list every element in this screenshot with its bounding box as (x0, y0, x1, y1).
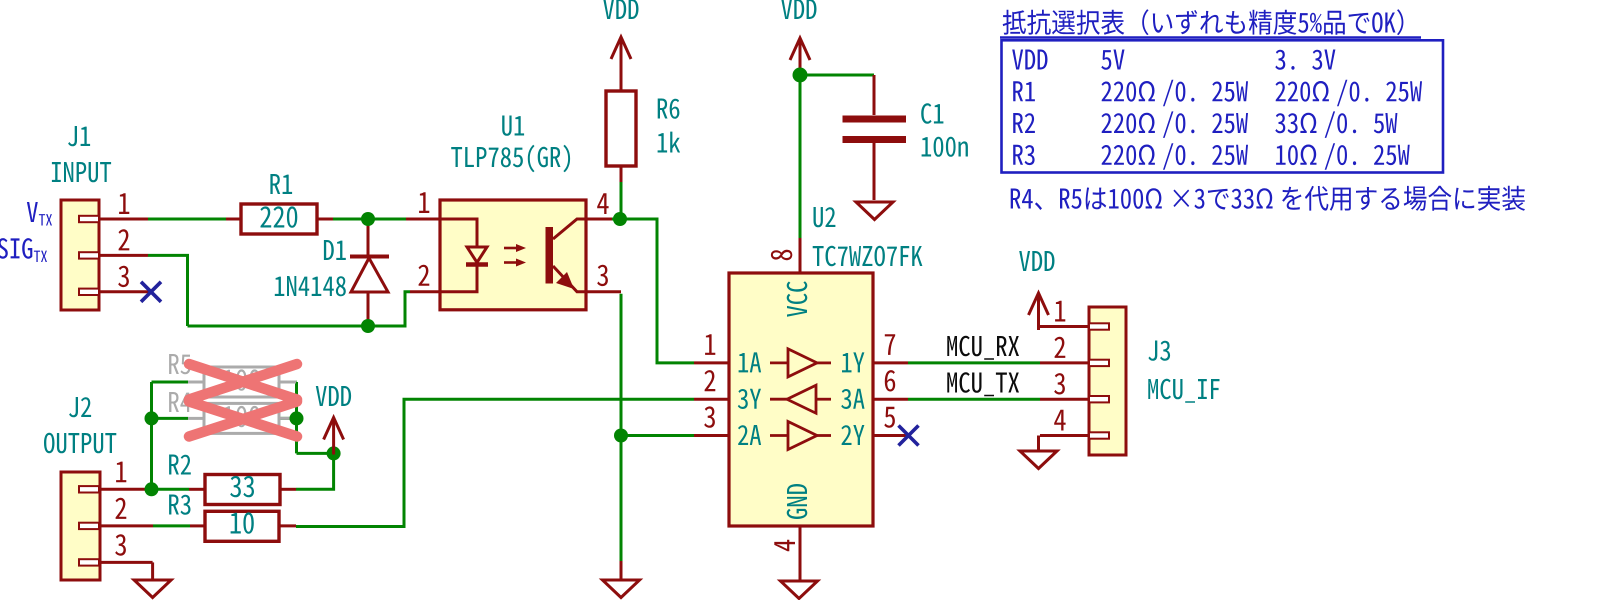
junction node VDD at R2 (327, 446, 341, 460)
J3 pin 3 (1040, 398, 1089, 401)
U1 phototransistor (546, 219, 587, 292)
wire R6 bottom to U1 pin4 junction (620, 182, 623, 219)
VDD label at C1 (781, 0, 816, 19)
R3 reference (169, 495, 190, 515)
U2 pin name 3Y (738, 389, 761, 409)
U1 pin3 number (597, 265, 608, 286)
wire to VDD node (297, 452, 334, 455)
capacitor C1 (843, 75, 907, 200)
wire left vertical R5/R4 to J2 pin1 (150, 382, 153, 489)
J1 pin2 number (119, 229, 130, 250)
R4 reference (169, 392, 191, 412)
wire bottom net to U1 pin2 (188, 292, 411, 326)
U2 pin 6 (873, 398, 908, 401)
J2 reference (69, 397, 91, 417)
ground below U1 net (603, 580, 640, 598)
J1 pin 1 (99, 218, 148, 221)
table row VDD col1 (1012, 50, 1047, 70)
wire J1 pin1 to R1 (148, 218, 226, 221)
resistor R6 (620, 74, 623, 91)
D1 value 1N4148 (275, 276, 346, 296)
resistor R5 (DNP) (188, 381, 204, 384)
wire R5 left stub (152, 381, 189, 384)
R1 value 220 (260, 206, 297, 227)
GND stem below U1 net (620, 561, 623, 580)
J2 pin3 number (115, 534, 126, 555)
U2 pin1 number (705, 334, 715, 355)
table row R1 col1 (1013, 81, 1035, 101)
U2 pin 3 (694, 434, 729, 437)
wire R5 right stub (279, 381, 297, 384)
wire J1 pin2 down (148, 255, 188, 326)
U2 buffer 3A-3Y (770, 385, 831, 413)
J1 reference (68, 126, 90, 146)
U1 pin 2 (410, 290, 440, 293)
wire J2 pin1 net (152, 488, 190, 491)
resistor R4 (DNP) (188, 417, 204, 420)
power VDD at J3 (1029, 293, 1049, 330)
J3 value MCU_IF (1148, 379, 1219, 403)
optocoupler U1 body (440, 200, 586, 310)
U2 pin4 number (774, 540, 795, 551)
J3 pin2 number (1055, 337, 1066, 358)
table title (1003, 9, 1404, 35)
J3 pin3 number (1054, 373, 1065, 394)
ground at U2 GND (781, 581, 818, 599)
wire U1 pin3 down to 2A node and GND (620, 294, 623, 561)
J3 pin1 VDD riser (1037, 307, 1040, 327)
U2 pin 1 (694, 361, 729, 364)
U2 pin5 number (884, 407, 895, 428)
wire R4 right stub (279, 417, 297, 420)
wire VDD down to U2 VCC (799, 75, 802, 238)
note R4 R5 (1011, 186, 1525, 211)
VDD label at R6 (603, 0, 638, 19)
J2 pin 3 (100, 561, 153, 564)
R5 value 100 (224, 369, 260, 390)
wire VDD node down to R2 right (296, 453, 334, 489)
U2 pin 2 (694, 398, 729, 401)
power VDD at R6 (611, 37, 631, 74)
U2 pin 5 (873, 434, 908, 437)
wire U1 pin4 to U2 pin1 (1A) (612, 219, 694, 363)
U2 reference (814, 207, 836, 227)
junction node R4 right (290, 411, 304, 425)
D1 reference (324, 240, 346, 260)
resistor R2 (189, 488, 205, 491)
J2 pin 1 (100, 488, 148, 491)
J3 pin 2 (1040, 361, 1089, 364)
J2 pin1 number (116, 462, 126, 483)
junction node D1/bottom net (361, 319, 375, 333)
table row R3 col3 (1276, 143, 1410, 170)
ground at C1 (856, 202, 893, 220)
wire R4 left stub (152, 417, 189, 420)
power VDD at C1 (790, 38, 810, 75)
U2 value TC7WZO7FK (813, 246, 923, 267)
R5 reference (169, 354, 190, 374)
U2 pin name 1Y (842, 352, 864, 372)
U1 pin 3 (586, 290, 621, 293)
R6 value 1k (658, 132, 681, 153)
R3 value 10 (231, 512, 254, 533)
label V_TX (27, 202, 38, 222)
U2 pin8 number (771, 250, 792, 261)
U1 value TLP785(GR) (451, 145, 570, 173)
diode D1 (350, 219, 389, 326)
J3 pin4 ground drop (1037, 436, 1040, 451)
label MCU_RX (947, 336, 1019, 360)
U1 reference (502, 116, 524, 136)
table title underline (1000, 36, 1421, 38)
table row R2 col2 (1102, 111, 1249, 137)
table border (1002, 40, 1444, 172)
U2 pin 7 (873, 361, 908, 364)
junction node U1 pin4 / R6 (613, 212, 627, 226)
label SIG_TX subscript (34, 251, 47, 262)
J3 pin4 number (1054, 410, 1065, 431)
U1 pin2 number (419, 265, 430, 286)
C1 value 100n (922, 137, 968, 157)
J3 pin 4 (1040, 434, 1089, 437)
J3 pin 1 (1040, 325, 1089, 328)
U1 pin 1 (406, 218, 440, 221)
connector J3 body (1089, 307, 1126, 455)
wire R3 to U2 pin2 (3Y) (296, 399, 694, 526)
U2 buffer 1A-1Y (770, 349, 831, 377)
J2 pin 2 (100, 524, 153, 527)
table row R2 col3 (1275, 111, 1397, 137)
J1 pin1 number (119, 193, 129, 214)
table row R1 col2 (1102, 80, 1249, 107)
wire MCU_TX U2 pin6 to J3 pin3 (908, 398, 1040, 401)
VDD label at R2 (316, 386, 351, 406)
resistor R1 (226, 218, 241, 221)
R2 value 33 (230, 476, 254, 497)
DNP cross R5 (189, 364, 297, 400)
table row R2 col1 (1013, 113, 1035, 133)
no-connect U2 pin5 (899, 426, 919, 446)
U2 pin 4 GND (799, 526, 802, 580)
wire right vertical R5/R4 (295, 382, 298, 453)
U2 pin name 2Y (841, 425, 864, 445)
VDD label at J3 (1019, 251, 1054, 271)
U2 pin name 1A (739, 352, 762, 372)
R4 value 100 (224, 406, 260, 427)
U2 pin3 number (704, 406, 715, 427)
table row R1 col3 (1276, 80, 1423, 107)
U1 pin1 number (419, 192, 429, 213)
U1 pin4 number (597, 193, 608, 214)
U1 internal LED (440, 219, 488, 292)
U2 pin7 number (885, 334, 895, 355)
R6 reference (658, 99, 680, 119)
U2 pin name 3A (841, 389, 864, 409)
resistor R3 (190, 524, 205, 527)
U2 pin 8 VCC (799, 238, 802, 273)
U2 pin6 number (885, 370, 895, 391)
R2 reference (169, 455, 191, 475)
J1 value INPUT (52, 162, 111, 182)
wire node to U2 pin3 (2A) (621, 434, 694, 437)
U2 pin2 number (705, 370, 716, 391)
label SIG_TX (0, 238, 32, 259)
J1 pin 2 (99, 254, 148, 257)
label V_TX subscript (39, 214, 52, 225)
no-connect J1 pin3 (141, 282, 161, 302)
table row VDD col2 (1101, 50, 1124, 70)
junction node J2 pin1 (145, 482, 159, 496)
R1 reference (270, 174, 292, 194)
table row R3 col2 (1102, 143, 1249, 170)
junction node VDD/C1/VCC (793, 68, 808, 83)
U2 pin name 2A (738, 425, 761, 445)
J2 pin2 number (116, 498, 127, 519)
power VDD at R2 (324, 418, 344, 455)
C1 reference (921, 103, 943, 124)
wire R1 to U1 pin1 with D1 tap (333, 218, 406, 221)
J3 pin1 number (1055, 301, 1065, 322)
J1 pin 3 (99, 290, 151, 293)
table row R3 col1 (1013, 145, 1034, 165)
U2 pin name GND (787, 484, 808, 519)
buffer IC U2 body (729, 273, 873, 526)
J1 pin3 number (118, 266, 129, 287)
U1 pin 4 (586, 218, 612, 221)
J3 reference (1148, 341, 1170, 361)
junction node U1 pin3 / 2A (614, 429, 628, 443)
table row VDD col3 (1275, 50, 1335, 70)
junction node R4 left (145, 411, 159, 425)
connector J1 body (61, 200, 99, 310)
label MCU_TX (947, 372, 1019, 396)
junction node R1/D1 (361, 212, 375, 226)
wire VDD to C1 (800, 74, 874, 77)
J2 value OUTPUT (44, 433, 116, 454)
ground at J2 (134, 580, 171, 598)
DNP cross R4 (189, 402, 297, 437)
U2 pin name VCC (787, 281, 808, 317)
ground at J3 (1020, 451, 1057, 469)
wire MCU_RX U2 pin7 to J3 pin2 (908, 361, 1040, 364)
U2 buffer 2A-2Y (770, 422, 831, 450)
wire J2 pin2 to R3 (153, 524, 190, 527)
U1 light arrows (504, 244, 526, 267)
J2 pin3 ground drop (151, 562, 154, 580)
connector J2 body (61, 472, 100, 580)
